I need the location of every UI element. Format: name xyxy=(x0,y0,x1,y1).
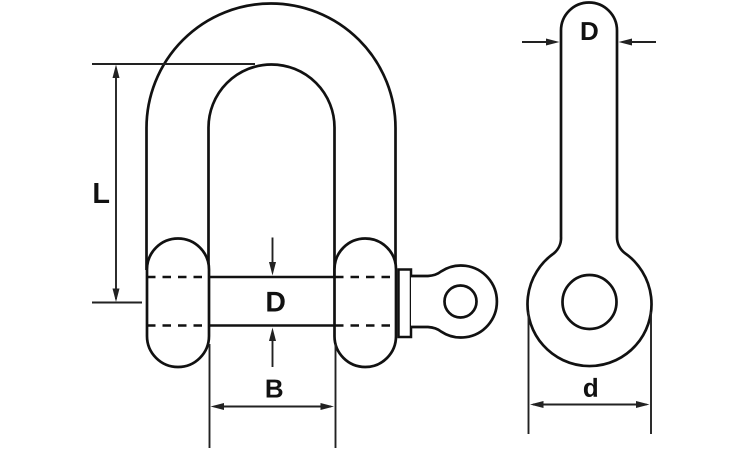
label L xyxy=(94,183,109,203)
shackle bow inner arch xyxy=(209,65,335,278)
pin eye head xyxy=(411,266,497,338)
pin hidden line (dashed, through left lug) top xyxy=(147,276,209,279)
pin hidden line (dashed, through right lug) bottom xyxy=(335,324,397,327)
pin shaft solid top line xyxy=(209,276,336,279)
dim D (pin): lower arrow pointing up xyxy=(272,332,274,367)
label D (side view) xyxy=(582,22,598,40)
dim D (side view): right arrow xyxy=(629,41,656,43)
dim B: left extension line xyxy=(209,344,211,448)
pin side view body xyxy=(527,3,651,367)
pin side view hole xyxy=(563,275,617,329)
dim B: dimension line with arrows xyxy=(214,406,331,408)
label D (pin diameter) xyxy=(267,292,284,312)
dim D (pin): upper arrow pointing down xyxy=(272,238,274,272)
pin hidden line (dashed, through left lug) bottom xyxy=(147,324,209,327)
dim L: dimension line with arrows xyxy=(115,68,117,299)
right eye lug (capsule) xyxy=(335,239,397,368)
dim L: bottom extension line xyxy=(92,302,142,304)
dim D (side view): left arrow xyxy=(522,41,549,43)
shackle bow outer arch xyxy=(147,3,396,270)
left eye lug (capsule) xyxy=(147,239,209,368)
dim B: right extension line xyxy=(335,344,337,448)
pin eye hole xyxy=(445,286,477,318)
label d xyxy=(584,378,597,397)
dim d: right extension line xyxy=(650,312,652,434)
dim d: left extension line xyxy=(528,312,530,434)
pin collar xyxy=(399,270,412,338)
pin shaft solid bottom line xyxy=(209,324,336,327)
pin hidden line (dashed, through right lug) top xyxy=(335,276,397,279)
label B xyxy=(267,380,283,398)
dim d: dimension line with arrows xyxy=(533,404,647,406)
dim L: top extension line xyxy=(92,63,255,65)
